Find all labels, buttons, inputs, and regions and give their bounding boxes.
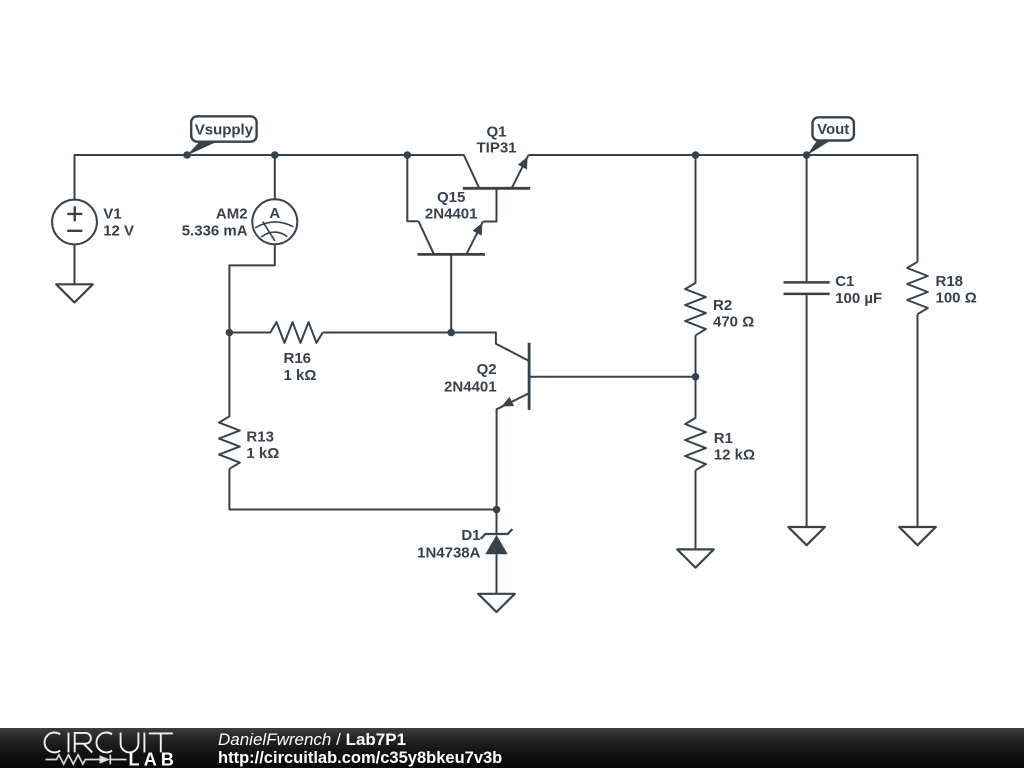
svg-text:LAB: LAB [129, 750, 179, 768]
svg-text:1 kΩ: 1 kΩ [284, 367, 317, 384]
svg-text:Q2: Q2 [477, 361, 497, 378]
svg-text:Vsupply: Vsupply [195, 122, 254, 139]
svg-text:Q15: Q15 [437, 189, 465, 206]
svg-text:R18: R18 [936, 273, 964, 290]
svg-text:Vout: Vout [817, 121, 849, 138]
svg-text:1 kΩ: 1 kΩ [246, 445, 279, 462]
svg-text:12 V: 12 V [103, 223, 134, 240]
svg-text:C1: C1 [835, 273, 854, 290]
svg-text:V1: V1 [103, 206, 121, 223]
svg-text:TIP31: TIP31 [476, 140, 516, 157]
svg-text:Q1: Q1 [486, 123, 506, 140]
svg-text:R13: R13 [246, 429, 274, 446]
svg-text:100 µF: 100 µF [835, 290, 882, 307]
svg-text:R1: R1 [714, 430, 733, 447]
svg-text:R16: R16 [284, 350, 312, 367]
svg-text:470 Ω: 470 Ω [713, 313, 754, 330]
svg-text:D1: D1 [461, 527, 480, 544]
svg-text:R2: R2 [713, 297, 732, 314]
svg-text:AM2: AM2 [216, 206, 248, 223]
svg-text:5.336 mA: 5.336 mA [182, 223, 248, 240]
svg-text:1N4738A: 1N4738A [417, 544, 481, 561]
svg-text:2N4401: 2N4401 [425, 205, 478, 222]
svg-text:2N4401: 2N4401 [444, 378, 497, 395]
svg-text:A: A [269, 205, 280, 222]
svg-text:100 Ω: 100 Ω [936, 290, 977, 307]
svg-text:12 kΩ: 12 kΩ [714, 447, 755, 464]
